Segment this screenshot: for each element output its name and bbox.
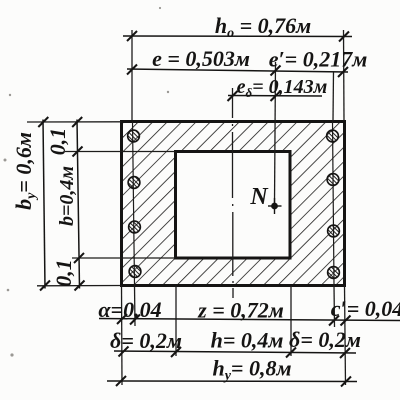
left rebar axis line [133,122,135,286]
left dimension line b_y [38,117,50,291]
bottom extension line x=334 (right rebar axis) [333,286,336,328]
dimension line a / z / c' [99,314,400,326]
svg-text:0,1: 0,1 [51,259,76,287]
rebar circle L2 [128,177,140,189]
bottom extension line x=344.5 [345,286,346,386]
left dimension line b [72,117,84,291]
svg-text:δ= 0,2м: δ= 0,2м [289,327,361,352]
bottom extension line x=176 (inner left) [175,286,177,357]
rebar circle L3 [129,221,141,233]
vertical dash-dot centerline [232,88,235,298]
dimension line h_y [107,376,357,387]
svg-text:h= 0,4м: h= 0,4м [211,328,284,353]
svg-text:b=0,4м: b=0,4м [56,166,78,226]
svg-text:c′= 0,04: c′= 0,04 [331,296,400,321]
svg-text:e = 0,503м: e = 0,503м [152,46,250,71]
svg-text:α=0,04: α=0,04 [98,297,161,322]
rebar circle R3 [328,225,340,237]
N force point [268,198,282,214]
left extension line y=285.5 [37,285,122,287]
svg-text:N: N [249,184,269,210]
left extension line y=258 [72,257,176,259]
dimension line e / e' [127,64,348,121]
left extension line y=122 [27,121,122,123]
N axis extension line [275,62,276,203]
svg-text:0,1: 0,1 [45,128,70,156]
hatched concrete ring between outer and inner contour [122,122,345,286]
bottom extension line x=121.5 [121,286,124,386]
svg-text:e′= 0,217м: e′= 0,217м [269,47,368,72]
left extension line y=151.5 [65,151,176,153]
outer section outline [122,122,345,286]
bottom extension line x=134.5 (left rebar axis) [134,286,137,327]
rebar circle R1 [327,130,339,142]
dimension line delta / h / delta [114,347,356,359]
bottom extension line x=291 (inner right) [290,286,292,357]
svg-text:δ= 0,2м: δ= 0,2м [110,328,182,353]
svg-text:z = 0,72м: z = 0,72м [197,298,284,323]
inner hole outline [176,152,291,259]
rebar circle L1 [128,130,140,142]
svg-text:hу= 0,8м: hу= 0,8м [212,356,291,384]
dimension line e_delta [228,91,323,101]
dimension line h0 [123,30,352,121]
rebar circle R2 [327,174,339,186]
rebar circle L4 [129,266,141,278]
scan noise specks [4,7,170,357]
rebar circle R4 [328,267,340,279]
right rebar axis line [333,122,335,286]
